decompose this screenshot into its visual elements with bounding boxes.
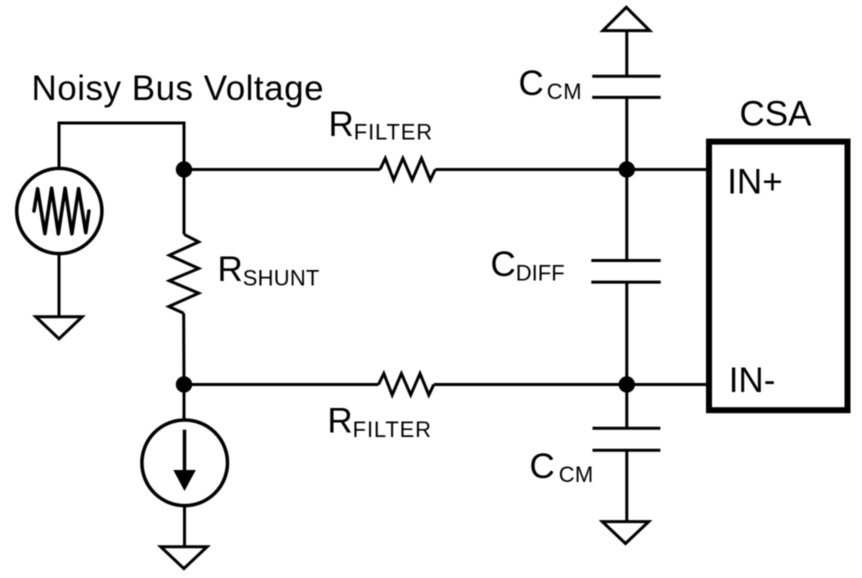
capacitor CCM (top)	[592, 76, 660, 97]
resistor RFILTER (bottom)	[379, 374, 434, 396]
capacitor CDIFF	[591, 261, 660, 283]
wire RSHUNT to node C	[182, 313, 185, 384]
wire CDIFF to node D	[625, 282, 628, 384]
capacitor CCM (bottom)	[593, 428, 661, 450]
wire node D to CCM bottom	[625, 385, 628, 429]
wire source to ground	[58, 254, 61, 316]
ground below CCM bottom	[602, 522, 648, 544]
wire current source to ground	[183, 506, 186, 546]
wire node A to RFILTER top	[184, 168, 380, 171]
resistor RSHUNT	[169, 234, 199, 313]
wire supply to CCM top	[625, 32, 628, 76]
current source I1	[142, 420, 228, 506]
node C (bottom-left junction)	[176, 376, 192, 392]
wire node C down to current source	[183, 385, 186, 421]
supply-up symbol above CCM top	[603, 7, 650, 30]
CSA box	[709, 142, 848, 411]
svg-text:IN-: IN-	[729, 361, 776, 400]
wire node B to CDIFF	[625, 170, 628, 261]
wire CCM top to node B	[625, 97, 628, 169]
wire CCM bottom to ground	[625, 450, 628, 520]
wire node A down to RSHUNT	[183, 170, 186, 235]
svg-text:IN+: IN+	[727, 162, 782, 201]
wire RFILTER bottom to node D	[434, 383, 706, 386]
ground below source	[36, 317, 82, 339]
node A (top-left junction)	[176, 161, 192, 177]
wire from source top to node A	[59, 123, 184, 167]
node B (top-right junction)	[619, 161, 635, 177]
wire RFILTER top to node B	[435, 168, 706, 171]
svg-text:CSA: CSA	[740, 95, 813, 134]
resistor RFILTER (top)	[380, 158, 435, 180]
svg-text:Noisy Bus Voltage: Noisy Bus Voltage	[32, 69, 325, 108]
ground below current source	[161, 547, 207, 569]
noise voltage source V1	[17, 168, 102, 253]
wire node C to RFILTER bottom	[184, 383, 379, 386]
node D (bottom-right junction)	[619, 376, 635, 392]
